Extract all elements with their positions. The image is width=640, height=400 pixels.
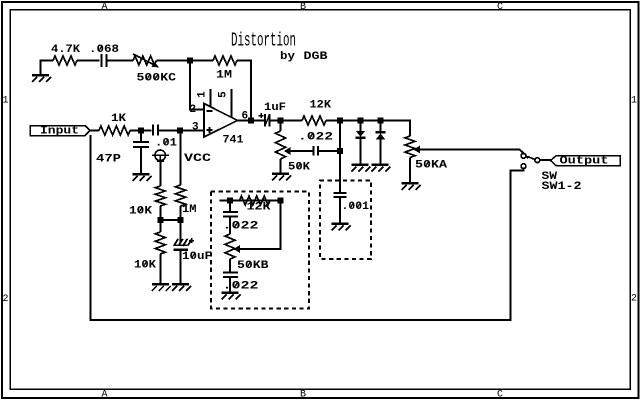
wire R4.7K to C.068 (77, 60, 100, 62)
svg-text:1M: 1M (182, 204, 197, 216)
potentiometer 50KA (405, 136, 420, 158)
wire pin3 node down to R1M bias (180, 131, 182, 186)
label SW1-2 (542, 181, 582, 193)
label 1K (111, 113, 126, 125)
wire 50KB to C.022 lower (229, 259, 231, 273)
wire op-amp output to 1uF (238, 120, 265, 122)
node J junction (.022 to .001) (337, 148, 343, 154)
wire 50KB wiper to node L (240, 204, 281, 250)
ground G3 (under 10K) (152, 283, 171, 291)
ground G2 (under 47P) (133, 173, 152, 181)
grid label B bottom (300, 390, 306, 400)
svg-text:Output: Output (560, 156, 609, 168)
switch throw 1 contact (521, 153, 526, 158)
node E junction (bias to 10uF) (178, 217, 184, 223)
op-amp pin 1 stub (210, 89, 212, 107)
diode D2 wire to ground (380, 140, 382, 164)
label .01 (155, 138, 177, 150)
wire VCC to R10K upper (159, 161, 161, 186)
label 47P (96, 154, 121, 166)
ground G1 (left of 4.7K) (32, 74, 51, 82)
svg-text:A: A (101, 2, 107, 13)
wire 50KA wiper to switch (420, 150, 524, 154)
switch pole contact (535, 158, 540, 163)
diode D2 (376, 132, 386, 139)
label 50K (288, 162, 310, 174)
input connector flag (30, 126, 90, 136)
svg-text:.022: .022 (223, 221, 259, 233)
wire node F down to pot 50K (280, 121, 282, 132)
label 1uF (264, 102, 286, 114)
wire 1uF to node F (270, 120, 303, 122)
diode D1 wire to ground (360, 138, 362, 164)
label 1M bias (182, 204, 197, 216)
node H junction (diode 1) (358, 118, 364, 124)
svg-text:.01: .01 (155, 138, 177, 150)
label 10K lower (134, 260, 156, 272)
node G junction (tone node) (337, 118, 343, 124)
capacitor .068 (102, 54, 107, 67)
resistor 10K lower (155, 232, 165, 254)
resistor 10K upper (155, 186, 165, 206)
label Input (40, 126, 79, 138)
label 1M feedback (216, 70, 232, 82)
potentiometer 50K (276, 131, 291, 159)
node I junction (diode 2) (378, 118, 384, 124)
svg-text:50K: 50K (288, 162, 310, 174)
svg-text:10K: 10K (129, 206, 152, 218)
grid label 2 right (631, 294, 637, 305)
grid label 2 left (2, 294, 8, 305)
switch throw 2 contact (521, 164, 526, 169)
diode D2 wire upper (380, 121, 382, 133)
wire pot 50K to ground (280, 159, 282, 173)
op-amp U1 741 triangle (204, 104, 238, 138)
resistor 1K (99, 126, 130, 135)
diode D1 (356, 131, 366, 138)
capacitor .001 (334, 193, 347, 197)
wire bypass loop (throw2 to bottom rail to input) (90, 135, 523, 320)
node F junction (1uF out) (278, 118, 284, 124)
wire node A down to op-amp pin 2 (190, 61, 204, 110)
resistor 12K (302, 116, 326, 125)
svg-text:741: 741 (223, 135, 244, 147)
svg-text:5: 5 (218, 91, 230, 98)
op-amp pin 5 label (218, 91, 230, 98)
wire R10K upper to node D (159, 206, 161, 220)
ground G8 (under 50KA) (402, 182, 421, 190)
wire C.022 to pot 50KB (229, 217, 231, 235)
svg-text:4.7K: 4.7K (51, 44, 80, 56)
resistor 12K option (240, 196, 271, 205)
label SW (542, 171, 558, 183)
svg-text:A: A (101, 390, 107, 400)
svg-text:500KC: 500KC (137, 73, 177, 85)
op-amp 741 label (223, 135, 244, 147)
resistor 1M feedback (213, 56, 237, 65)
svg-text:C: C (497, 390, 503, 400)
capacitor .022 option upper (223, 212, 238, 217)
output node junction pin6 (248, 118, 254, 124)
wire C.022 to node J (318, 150, 340, 152)
grid label A bottom (101, 390, 107, 400)
capacitor .022 main (314, 146, 319, 156)
svg-text:10K: 10K (134, 260, 156, 272)
op-amp pin 6 label (242, 111, 249, 123)
wire node B down to 47P (140, 131, 142, 142)
svg-text:2: 2 (190, 104, 197, 116)
wire pot to node A and R1M (157, 60, 214, 62)
label 10uF (182, 251, 212, 263)
svg-text:47P: 47P (96, 154, 121, 166)
svg-text:.068: .068 (89, 44, 119, 56)
wire 12K to corner via diode nodes (326, 121, 410, 137)
grid label C bottom (497, 390, 503, 400)
wire node K to C.022 upper (229, 201, 231, 213)
svg-text:1M: 1M (216, 70, 232, 82)
svg-text:C: C (497, 2, 503, 13)
op-amp pin 1 label (197, 91, 209, 98)
label Output (560, 156, 609, 168)
wire C.01 to op-amp pin 3 (158, 130, 204, 132)
wire node D to node E (160, 219, 180, 221)
label .022 option upper (223, 221, 259, 233)
capacitor .022 option lower (223, 273, 238, 278)
wire C.022 lower to ground (229, 277, 231, 292)
label 12K (310, 100, 332, 112)
ground G9 (option box) (222, 292, 241, 300)
label 500KC (137, 73, 177, 85)
svg-text:B: B (300, 2, 306, 13)
grid label 1 left (2, 96, 8, 107)
wire 50KA to ground (409, 158, 411, 183)
node C junction (pin3 node) (177, 128, 183, 134)
switch SW lever (526, 156, 535, 160)
ground G6 (under D1) (352, 164, 371, 172)
label 4.7K (51, 44, 80, 56)
node D junction (bias divider) (157, 217, 163, 223)
label .001 (342, 201, 370, 213)
wire R1K to C.01 via node B (130, 130, 152, 132)
wire node E to 10uF (180, 220, 182, 244)
wire input to R1K (89, 130, 99, 132)
svg-text:1: 1 (2, 96, 8, 107)
svg-text:Distortion: Distortion (231, 30, 296, 52)
svg-text:10uF: 10uF (182, 251, 212, 263)
svg-text:.001: .001 (342, 201, 370, 213)
grid label C top (497, 2, 503, 13)
capacitor .01 (153, 125, 158, 136)
op-amp pin 3 label (192, 122, 199, 134)
svg-text:by: by (280, 51, 295, 63)
capacitor 47P (133, 142, 149, 147)
capacitor 1uF electrolytic (259, 113, 270, 127)
svg-text:.022: .022 (298, 132, 333, 144)
potentiometer 500KC (133, 54, 159, 68)
svg-text:1: 1 (631, 96, 637, 107)
svg-text:1K: 1K (111, 113, 126, 125)
wire C.068 to pot 500KC (107, 60, 134, 62)
svg-text:1uF: 1uF (264, 102, 286, 114)
wire R10K lower to ground (159, 254, 161, 283)
wire pole to output flag (540, 159, 551, 161)
wire .001 to ground (339, 197, 341, 223)
grid label B top (300, 2, 306, 13)
node L junction (option right) (278, 198, 284, 204)
svg-text:DGB: DGB (304, 51, 328, 63)
potentiometer 50KB (225, 234, 240, 259)
wire 50K wiper to C.022 (291, 150, 314, 152)
svg-text:B: B (300, 390, 306, 400)
node A junction (feedback node) (187, 58, 193, 64)
grid label A top (101, 2, 107, 13)
svg-text:50KA: 50KA (415, 160, 447, 172)
svg-text:Input: Input (40, 126, 79, 138)
subtitle by DGB (280, 51, 328, 63)
svg-text:.022: .022 (223, 281, 259, 293)
capacitor 10uF electrolytic (174, 238, 195, 250)
ground G4 (under 10uF) (172, 283, 191, 291)
output connector flag (551, 156, 621, 166)
dashed option box 2 (320, 181, 371, 260)
svg-text:VCC: VCC (184, 153, 212, 165)
label 50KB (237, 260, 269, 272)
wire 1M to output node (right vertical) (237, 61, 251, 121)
resistor 1M bias (176, 185, 186, 206)
label .022 option lower (223, 281, 259, 293)
op-amp pin 2 label (190, 104, 197, 116)
op-amp pin 5 stub (231, 89, 233, 118)
svg-text:3: 3 (192, 122, 199, 134)
svg-text:12K: 12K (310, 100, 332, 112)
svg-text:2: 2 (2, 294, 8, 305)
ground G5 (under 50K) (272, 173, 291, 181)
label 10K upper (129, 206, 152, 218)
ground G10 (under .001) (332, 223, 351, 231)
label 12K option (247, 202, 271, 214)
resistor 4.7K (53, 56, 77, 65)
svg-text:2: 2 (631, 294, 637, 305)
svg-text:50KB: 50KB (237, 260, 269, 272)
label VCC (184, 153, 212, 165)
grid label 1 right (631, 96, 637, 107)
label .068 (89, 44, 119, 56)
wire node D to R10K lower (159, 220, 161, 232)
ground G7 (under D2) (372, 164, 391, 172)
diode D1 wire upper (360, 121, 362, 132)
dashed option box 1 (211, 192, 309, 309)
wire 47P to ground (140, 147, 142, 173)
svg-text:1: 1 (197, 91, 209, 98)
power symbol VCC (152, 150, 169, 161)
wire R1M bias to node E (180, 206, 182, 220)
node K junction (option left) (227, 198, 233, 204)
wire option box top rail (220, 200, 282, 202)
svg-text:12K: 12K (247, 202, 271, 214)
title Distortion (231, 30, 296, 52)
node B junction (47P node) (138, 128, 144, 134)
wire 10uF to ground (180, 250, 182, 284)
wire ground to R 4.7K (41, 61, 54, 75)
wire node G down to .001 cap (339, 121, 341, 194)
label .022 main (298, 132, 333, 144)
label 50KA (415, 160, 447, 172)
svg-text:SW1-2: SW1-2 (542, 181, 582, 193)
